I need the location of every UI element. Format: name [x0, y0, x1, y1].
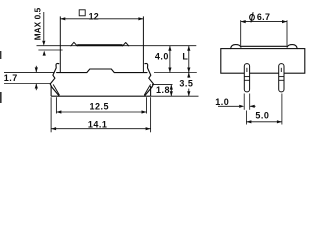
dimension MAX 0.5 — [43, 12, 45, 41]
dimension 1.8 — [170, 85, 172, 97]
dimension 1.7 (clip drop below housing top) — [4, 71, 55, 73]
dimension 12.5 (span between clip tips) — [55, 97, 57, 113]
svg-text:14.1: 14.1 — [88, 119, 108, 129]
dimension 12 (square keytop width) — [60, 18, 143, 20]
housing base outline — [50, 86, 52, 96]
keytop edge-on plate line — [241, 45, 287, 47]
svg-text:6.7: 6.7 — [257, 12, 271, 22]
1.8 upper reference line — [152, 84, 173, 86]
keytop top surface line with reference extensions — [37, 45, 197, 47]
square symbol — [79, 10, 85, 16]
svg-text:5.0: 5.0 — [255, 110, 269, 120]
housing top reference line (right) — [154, 72, 197, 74]
dimension 14.1 (base width) — [50, 97, 52, 132]
left clip inner edge — [53, 85, 59, 95]
svg-text:12: 12 — [89, 11, 99, 21]
svg-text:1.7: 1.7 — [4, 73, 18, 83]
right dome boss — [287, 45, 297, 49]
right terminal leg — [279, 64, 284, 92]
raised keytop center band — [77, 44, 122, 46]
left terminal leg — [244, 64, 249, 92]
svg-text:3.5: 3.5 — [179, 78, 193, 88]
right snap-in clip — [145, 63, 154, 95]
left nub on keytop — [71, 42, 77, 46]
dimension 5.0 (leg spacing) — [245, 111, 247, 125]
svg-text:L: L — [182, 52, 188, 62]
right clip inner edge — [144, 85, 150, 95]
dimension φ6.7 (boss circle diameter) — [240, 20, 242, 45]
svg-text:MAX 0.5: MAX 0.5 — [34, 7, 43, 40]
svg-text:1.8: 1.8 — [156, 85, 170, 95]
dimension L and 3.5 shared line — [188, 46, 190, 78]
svg-text:4.0: 4.0 — [155, 52, 169, 62]
dimension 4.0 (keytop height) — [169, 46, 171, 73]
housing bottom reference line (right) — [151, 95, 199, 97]
keytop right edge / 12-dim right extension — [142, 16, 144, 72]
svg-text:12.5: 12.5 — [90, 101, 110, 111]
left snap-in clip — [50, 63, 59, 95]
body outline — [221, 49, 305, 74]
svg-text:1.0: 1.0 — [215, 97, 229, 107]
keytop left edge / 12-dim left extension — [59, 16, 61, 72]
MAX 0.5 lower reference line — [38, 49, 62, 51]
text φ6.7 — [250, 14, 255, 20]
dimension 1.0 (leg width) — [243, 94, 245, 110]
housing top outline with center plateau — [57, 69, 147, 73]
scan artifact marks at left edge — [0, 51, 1, 59]
right nub on keytop — [123, 43, 129, 46]
left dome boss — [231, 45, 241, 49]
